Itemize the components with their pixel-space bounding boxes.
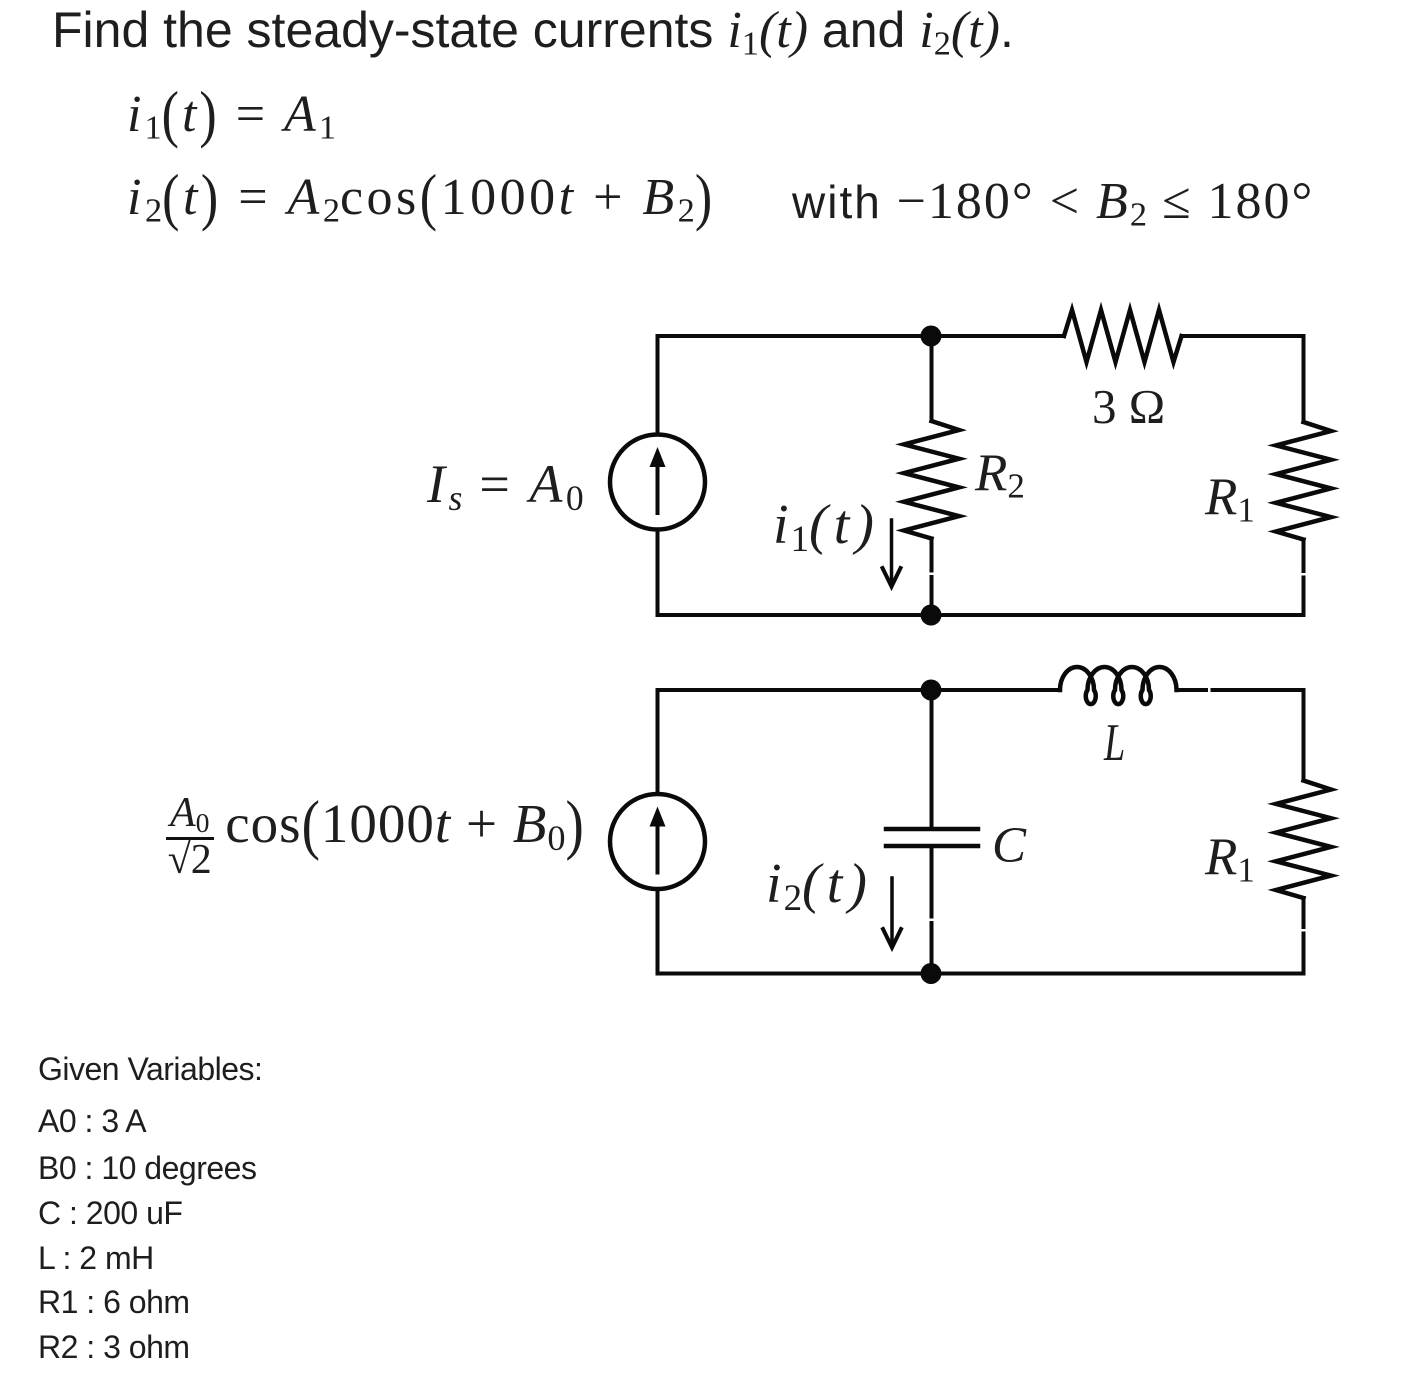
label R1 top [1205,471,1255,528]
equation i2(t) = A2 cos(1000t + B2) [127,172,716,228]
equation i1(t) = A1 [127,89,336,145]
wire: middle branch node to R2 [930,336,934,421]
wire: capacitor bottom plate to bottom node [930,846,934,917]
wire: right lower + bottom wire (top circuit) [658,530,1304,616]
current source Is arrow [650,447,666,513]
resistor R2 (vertical) [904,421,959,539]
wire: R1 to bottom-right corner and bottom wire to source [1302,898,1306,927]
label (A0/sqrt2)cos(1000t+B0) (bottom current source) [166,793,585,880]
wire: R1 to bottom-right corner and bottom wire to source [1302,540,1306,572]
wire: R2 to bottom node [930,539,934,571]
constraint: with -180 < B2 <= 180 [792,176,1314,232]
current source (A0/sqrt2)cos circle [610,794,705,889]
given variables block [38,1053,262,1085]
label C [992,821,1026,872]
wire: 3-ohm to top-right corner, down to R1 [1182,336,1304,422]
wire: node to inductor [931,688,1060,692]
label i2(t) [766,856,873,917]
wire: inductor to top-right corner down to R1 [1177,688,1206,692]
resistor R1 (top circuit, vertical) [1276,422,1331,540]
current source (A0/sqrt2)cos arrow [650,807,666,873]
arrow i2(t) current direction [883,878,901,948]
wire: capacitor lower segment [930,923,934,974]
label i1(t) [773,497,880,558]
label 3 ohm [1092,382,1165,431]
label R1 bottom [1205,831,1255,888]
wire: bottom circuit left/top (source top to node) [658,690,932,794]
wire: top circuit node to 3-ohm resistor [931,334,1064,338]
resistor 3 ohm (horizontal) [1064,310,1182,362]
inductor L [1060,667,1177,704]
arrow i1(t) current direction [883,520,901,587]
label Is = A0 (top current source) [427,457,584,516]
wire: right lower + bottom wire (bottom circuit) [658,889,1304,974]
wire: middle branch lower segment [930,577,934,615]
node dot top (bottom circuit) [921,680,942,701]
label L [1104,717,1125,770]
node dot top (top circuit) [921,326,942,347]
wire: top circuit left/top (source top to node) [658,336,932,435]
label R2 [975,447,1025,504]
node dot bottom (top circuit) [921,605,942,626]
capacitor C plates [886,829,978,846]
title: Find the steady-state currents i1(t) and i2(t). [52,5,1014,61]
wire: middle branch node to capacitor top plate [930,690,934,829]
current source Is circle [610,435,705,530]
node dot bottom (bottom circuit) [921,963,942,984]
wire: inductor to top-right corner down to R1 (segment) [1213,690,1304,781]
resistor R1 (bottom circuit, vertical) [1276,781,1331,899]
